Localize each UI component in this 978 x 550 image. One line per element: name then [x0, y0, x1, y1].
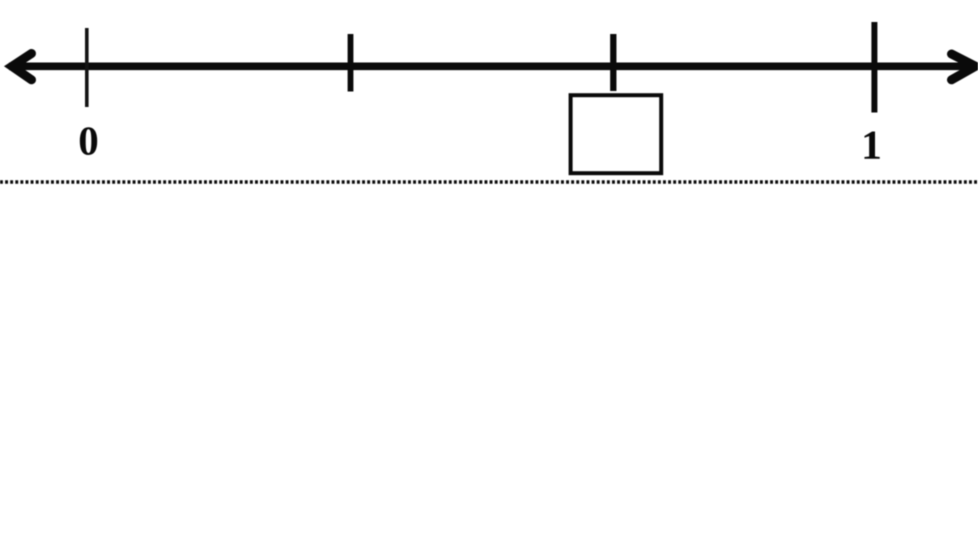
left arrowhead	[12, 54, 32, 80]
tick mark at 0 (thin tall)	[85, 28, 89, 107]
right arrowhead	[952, 54, 976, 80]
dotted separator line	[0, 180, 978, 184]
tick mark 1/3 (thick)	[348, 34, 354, 92]
number line main shaft	[9, 63, 970, 71]
tick mark at 1 (thick tall)	[871, 22, 877, 113]
empty answer box under 2/3 tick	[571, 95, 662, 173]
svg-text:0: 0	[78, 117, 99, 163]
svg-text:1: 1	[861, 121, 882, 167]
tick mark 2/3 (thick)	[610, 34, 616, 91]
